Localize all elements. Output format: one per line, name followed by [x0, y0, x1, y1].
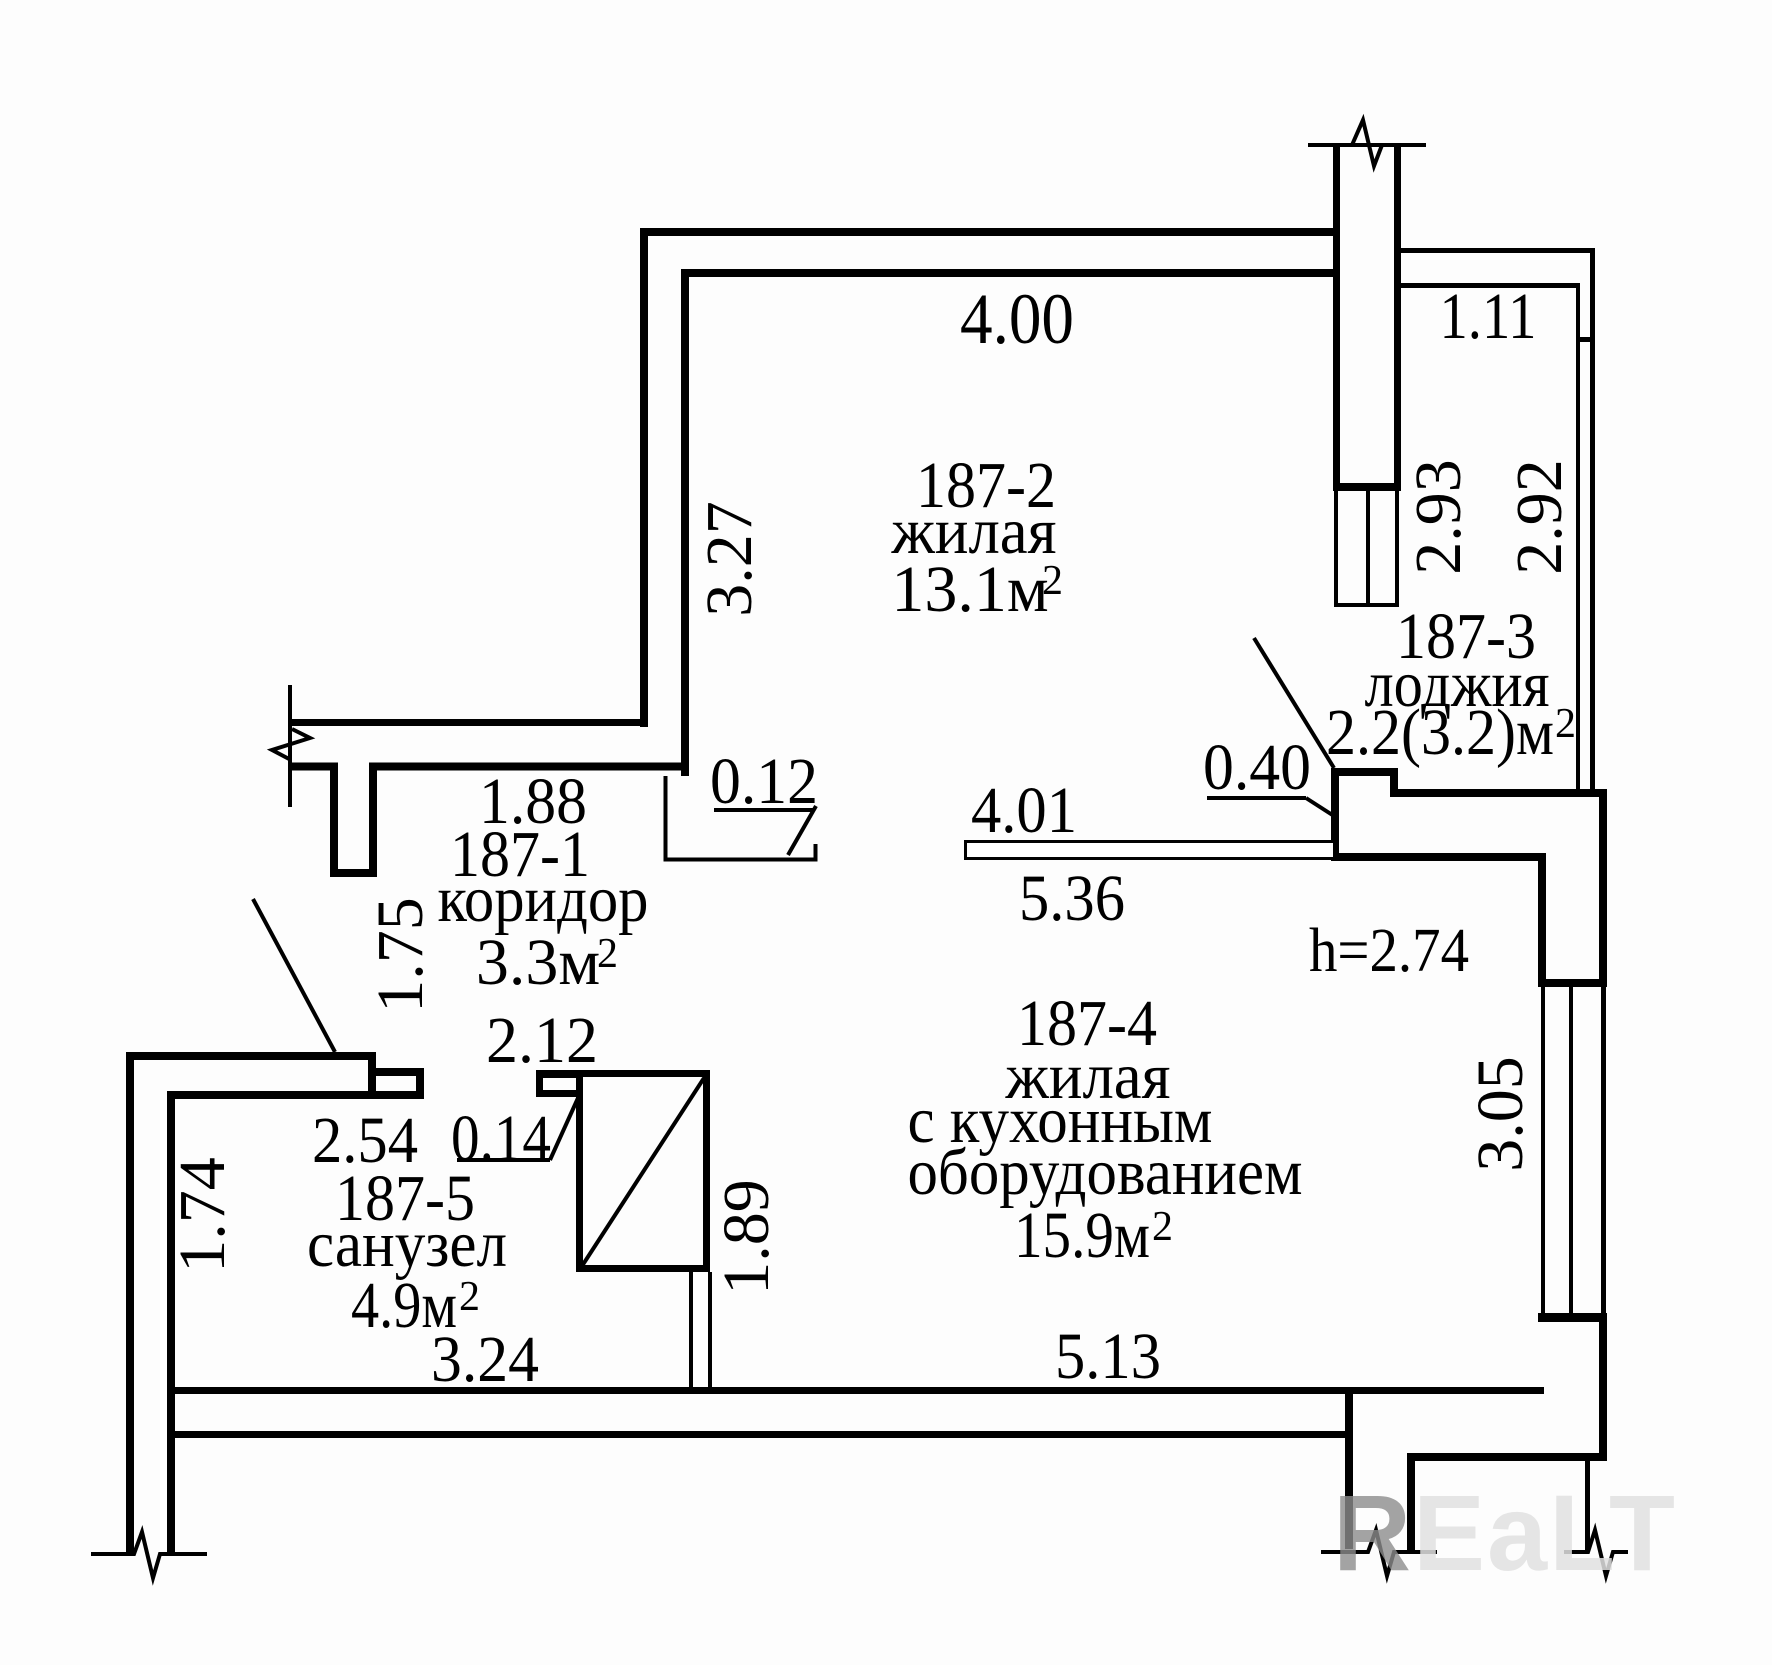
svg-text:1.75: 1.75 [364, 897, 437, 1013]
svg-text:2: 2 [459, 1274, 480, 1320]
svg-text:REaLT: REaLT [1333, 1472, 1677, 1593]
svg-text:4.00: 4.00 [960, 279, 1074, 359]
svg-text:1.11: 1.11 [1440, 280, 1537, 353]
svg-text:h=2.74: h=2.74 [1309, 917, 1469, 985]
svg-text:0.12: 0.12 [710, 745, 818, 818]
svg-text:2.2(3.2)м: 2.2(3.2)м [1326, 696, 1554, 769]
svg-text:2.93: 2.93 [1402, 459, 1475, 575]
svg-text:3.27: 3.27 [693, 501, 766, 617]
svg-text:3.24: 3.24 [431, 1323, 539, 1396]
svg-text:0.40: 0.40 [1203, 731, 1311, 804]
svg-text:2.12: 2.12 [486, 1004, 598, 1077]
svg-text:2: 2 [597, 931, 618, 977]
svg-text:1.89: 1.89 [710, 1179, 783, 1295]
svg-text:3.3м: 3.3м [476, 926, 600, 999]
svg-text:5.36: 5.36 [1019, 862, 1125, 935]
svg-text:13.1м: 13.1м [891, 553, 1048, 626]
svg-text:4.01: 4.01 [971, 774, 1077, 847]
svg-text:3.05: 3.05 [1464, 1056, 1537, 1172]
svg-text:15.9м: 15.9м [1014, 1199, 1150, 1272]
svg-text:5.13: 5.13 [1055, 1320, 1161, 1393]
svg-text:2: 2 [1152, 1204, 1173, 1250]
svg-text:2.92: 2.92 [1503, 459, 1576, 575]
svg-text:2: 2 [1555, 701, 1576, 747]
svg-text:1.74: 1.74 [166, 1157, 239, 1273]
svg-text:2: 2 [1042, 558, 1063, 604]
